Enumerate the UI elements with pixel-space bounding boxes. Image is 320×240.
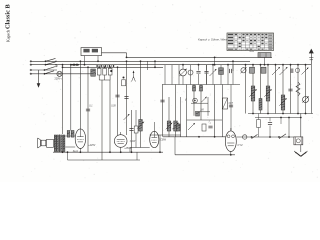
label Netz bbox=[250, 50, 255, 53]
label CY2 bbox=[238, 143, 244, 147]
switch S1a bbox=[45, 58, 57, 62]
tube V3 bbox=[150, 131, 159, 147]
resistor row R1 R2 R3 bbox=[97, 65, 115, 80]
tube V2 (circle) bbox=[114, 132, 127, 147]
wires right block verticals bbox=[246, 65, 312, 114]
wire transformer to V1 top bbox=[65, 135, 75, 137]
label CAW bbox=[130, 140, 136, 143]
wire V4 bottom bbox=[230, 152, 232, 156]
wire stub x=155 bbox=[154, 60, 156, 68]
wire stub x=214.6 top bbox=[214, 57, 216, 66]
output transformer Tr3 bbox=[54, 135, 65, 153]
label +245V bbox=[88, 144, 95, 147]
speaker magnet frame bbox=[47, 139, 54, 147]
capacitor C9 bbox=[196, 64, 200, 85]
wire V3 top stub bbox=[153, 122, 155, 131]
wire H y=113.5 bbox=[248, 113, 313, 115]
capacitor C7 on L9 bbox=[129, 129, 133, 131]
label f1 bbox=[185, 98, 187, 102]
wire x=140.5 bbox=[140, 60, 142, 147]
wire x=208 bbox=[207, 97, 209, 116]
wire H y=84.5 bbox=[162, 84, 240, 86]
IF transformer can Tr2 bbox=[81, 48, 102, 66]
mains input terminals bbox=[30, 61, 32, 75]
wire bus B2 (y=64.7) bbox=[30, 64, 311, 66]
wire L4 x=88 bbox=[87, 66, 89, 152]
pot P1 (circle+arrow) bbox=[179, 64, 187, 85]
resistor R4 (variable) bbox=[137, 120, 144, 132]
resistor R19 zigzag bbox=[296, 82, 300, 96]
wire H y=111.8 bbox=[195, 111, 210, 113]
wire L2 x=70.8 bbox=[70, 64, 72, 131]
wire L1 x=62.5 bbox=[62, 64, 64, 134]
svg-text:f: f bbox=[185, 98, 187, 102]
label CBW bbox=[160, 139, 166, 142]
mains cable arrow bbox=[37, 70, 41, 88]
svg-text:CBW: CBW bbox=[160, 139, 166, 142]
capacitor C8 bbox=[160, 100, 164, 102]
wire x=169 bbox=[168, 97, 170, 137]
arrow comp r2 bbox=[280, 67, 288, 75]
resistor R15 (variable) bbox=[249, 86, 257, 101]
antenna arrow A1 bbox=[309, 49, 314, 65]
pot P3 bbox=[241, 67, 247, 73]
arrow component bbox=[210, 64, 217, 85]
svg-text:220V∿: 220V∿ bbox=[55, 77, 63, 80]
wire V4 top bbox=[230, 128, 232, 131]
junction dots right block bbox=[245, 64, 307, 115]
wire L5 x=102 bbox=[101, 80, 103, 160]
switch S1b bbox=[45, 62, 57, 66]
svg-text:+245V: +245V bbox=[88, 144, 95, 147]
choke box left of resistor row bbox=[91, 69, 96, 76]
wire transformer bottom to bus bbox=[62, 151, 64, 153]
resistor R7 bbox=[219, 68, 224, 75]
arrow comp r1 bbox=[272, 67, 280, 75]
capacitor C16 bbox=[268, 118, 272, 138]
wire bottom bus G3 (y=154.8) bbox=[175, 154, 235, 156]
small comp at x=123 dot/box bbox=[122, 77, 126, 86]
wire mid H y=135 bbox=[150, 134, 181, 136]
pot P6 inline bbox=[243, 135, 247, 139]
wire transformer to V1 bottom bbox=[65, 146, 75, 148]
wire x=147.5 stub bbox=[147, 61, 149, 70]
capacitor C15 bbox=[288, 89, 292, 91]
svg-text:0,05: 0,05 bbox=[111, 105, 116, 107]
component box on x=136 bbox=[134, 110, 138, 148]
capacitor C14 bbox=[291, 69, 293, 74]
capacitor C10 bbox=[204, 65, 208, 85]
wire bus y=137 right bbox=[236, 136, 294, 138]
wire G1-G2 link x=67.5 bbox=[67, 151, 69, 160]
wire bus B5 (y=73.8) bbox=[30, 73, 96, 75]
lamp LP1 bbox=[57, 71, 62, 76]
resistor R8 bbox=[193, 86, 196, 92]
pot P2 bbox=[188, 70, 193, 75]
svg-text:0,1: 0,1 bbox=[89, 105, 93, 107]
wire x=233 (to V4) bbox=[232, 60, 234, 71]
resistor R16 bbox=[259, 99, 262, 111]
dropper box R0 on T2 bbox=[258, 53, 271, 66]
pot P4 bbox=[295, 68, 299, 72]
wire V3 left line y=147.5 bbox=[130, 148, 150, 153]
wire T1 (coil output y=52.8) bbox=[102, 52, 127, 54]
wire V1 cathode to bus bbox=[80, 149, 82, 154]
svg-text:2M: 2M bbox=[199, 110, 203, 112]
resistor R17 (variable) bbox=[264, 86, 272, 101]
resistor R13 bbox=[250, 67, 255, 73]
resistor R10 bbox=[196, 112, 200, 117]
wire x=180.6 bbox=[180, 97, 182, 137]
wire H y=120 bbox=[187, 119, 223, 121]
resistor R14 bbox=[261, 67, 266, 73]
title Kapsch Classic B (rotated) bbox=[5, 4, 12, 42]
note label (italic) bbox=[198, 38, 227, 42]
tube V4 (CY2) bbox=[225, 128, 236, 152]
wire L8 x=126.5 bbox=[126, 57, 128, 136]
resistor R6 (variable) bbox=[172, 121, 179, 131]
label CDE bbox=[111, 105, 116, 107]
wire L3 x=80.4 (tube V1 anode) bbox=[80, 60, 82, 129]
resistor R20 bbox=[257, 114, 261, 138]
grid resistor boxes at V1 bbox=[67, 131, 74, 138]
wire x=175.5 bbox=[175, 85, 177, 137]
wire x=214.6 bbox=[214, 85, 216, 137]
capacitor C4 on L4 bbox=[86, 109, 90, 111]
wire mid riser x=160 bbox=[159, 135, 161, 153]
arrow comp mid bbox=[201, 97, 207, 103]
capacitor C12 on x=231 bbox=[229, 85, 233, 131]
capacitor C6 on L8 bbox=[124, 97, 128, 99]
wire H y=103.2 bbox=[191, 102, 208, 104]
ground symbol bbox=[294, 151, 307, 156]
capacitor C5 on L7 bbox=[115, 95, 119, 97]
wire L9 x=131.5 bbox=[131, 110, 133, 153]
wire H y=117.5 bbox=[255, 117, 301, 119]
tube V1 (AL4) bbox=[75, 129, 85, 149]
wires top-middle stubs bbox=[165, 65, 233, 85]
wire bottom bus G2 (y=160) bbox=[68, 159, 141, 161]
label CF bbox=[229, 103, 234, 105]
wire L6 x=110 bbox=[109, 80, 111, 153]
wire T2 (y=57.4) bbox=[127, 56, 273, 58]
wire bus B1 (y=61.3) bbox=[30, 60, 250, 62]
label 2M bbox=[199, 110, 203, 112]
capacitor C11 (vertical) bbox=[227, 64, 231, 73]
wire x=162.5 bbox=[162, 85, 164, 137]
box with diagonal (crystal) bbox=[223, 98, 228, 109]
resistor R12 bbox=[202, 124, 206, 131]
wire T1 drop x=126.5 bbox=[126, 53, 128, 58]
wire bus B3 (y=67.3) bbox=[62, 66, 163, 68]
switch S1d bbox=[44, 71, 54, 75]
pot P5 bbox=[302, 96, 309, 103]
svg-text:CY2: CY2 bbox=[238, 143, 244, 147]
wire x=186.6 bbox=[186, 85, 188, 137]
wire G2 link x=137 bbox=[136, 152, 138, 160]
wire V2 cathode bbox=[120, 147, 122, 153]
resistor R11 bbox=[176, 124, 180, 131]
voltage table bbox=[227, 33, 274, 51]
wire x=222.3 bbox=[221, 85, 223, 137]
wire x=289 bbox=[288, 117, 290, 138]
resistor R5 (variable) bbox=[166, 121, 173, 131]
switch S2 bbox=[251, 134, 258, 138]
switch S1c bbox=[44, 65, 57, 71]
wire x=201 bbox=[200, 85, 202, 121]
switch S3 bbox=[278, 134, 286, 139]
heavy bus joint x71-79 bbox=[71, 64, 79, 66]
label AL4 bbox=[73, 149, 78, 153]
wire G3 riser x=175 bbox=[174, 137, 176, 155]
label Ia bbox=[209, 119, 212, 124]
wire bottom bus G1 (y=152.2) bbox=[53, 151, 163, 153]
label CDF bbox=[89, 105, 93, 107]
arrow comp r3 bbox=[302, 68, 309, 75]
arrow on L8 (AVC) bbox=[124, 114, 130, 120]
wire choke to ground bbox=[300, 145, 302, 152]
wire bus B4 (y=70) bbox=[30, 69, 57, 71]
loudspeaker LS bbox=[38, 138, 46, 148]
wire H y=136.8 bbox=[163, 136, 225, 138]
filter choke Tr4 bbox=[294, 137, 303, 145]
svg-text:a: a bbox=[210, 122, 212, 124]
fork arrow at x=133.5 bbox=[132, 70, 136, 81]
wire x=281 stub bbox=[280, 117, 282, 124]
label 220V bbox=[55, 77, 63, 80]
wire x=300.8 riser bbox=[300, 114, 302, 137]
arrow comp bbox=[188, 123, 195, 130]
wire x=194 bbox=[193, 85, 195, 116]
svg-text:Kapsch Classic B: Kapsch Classic B bbox=[5, 4, 12, 42]
svg-text:Kapsch u. Söhne, Wien: Kapsch u. Söhne, Wien bbox=[198, 38, 227, 42]
resistor R9 bbox=[200, 86, 203, 92]
coil circle bbox=[193, 98, 198, 103]
wire L7 x=117.5 (tube V2 grid) bbox=[117, 66, 119, 135]
resistor R18 (variable) bbox=[279, 95, 287, 110]
label +250V bbox=[124, 147, 131, 150]
capacitor C13 bbox=[208, 126, 212, 128]
